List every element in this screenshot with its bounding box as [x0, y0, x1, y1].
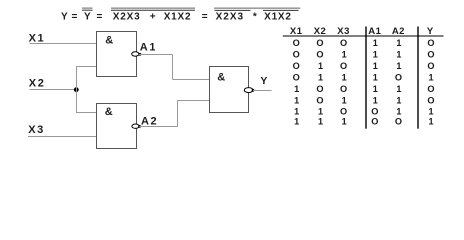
nand gate U1 box [97, 32, 137, 77]
svg-text:1: 1 [373, 38, 378, 48]
svg-text:X2X3: X2X3 [113, 12, 141, 23]
svg-text:1: 1 [428, 73, 433, 83]
svg-text:O: O [293, 38, 300, 48]
table row 5 [294, 84, 434, 94]
truth table separator bar 1 [365, 27, 367, 129]
svg-text:+: + [150, 12, 156, 23]
svg-text:X1: X1 [29, 33, 46, 45]
svg-text:O: O [427, 50, 434, 60]
pin dot A1 [139, 53, 142, 56]
svg-text:1: 1 [373, 84, 378, 94]
wire Y output [253, 90, 272, 92]
svg-text:1: 1 [373, 73, 378, 83]
svg-text:1: 1 [373, 95, 378, 105]
wire junction riser [76, 67, 78, 113]
svg-text:X2: X2 [314, 26, 327, 37]
svg-text:1: 1 [342, 50, 347, 60]
gate U1 output bubble [132, 52, 139, 56]
svg-text:&: & [217, 72, 225, 84]
truth table header underline [283, 35, 444, 37]
svg-text:X3: X3 [28, 124, 45, 136]
svg-text:1: 1 [342, 117, 347, 127]
svg-text:1: 1 [318, 73, 323, 83]
svg-text:Y: Y [260, 75, 267, 87]
wire X3 to gate U2 input 2 [28, 136, 97, 138]
svg-text:O: O [340, 84, 347, 94]
gate U3 output bubble [244, 88, 253, 93]
svg-text:O: O [395, 73, 402, 83]
svg-text:X2: X2 [29, 77, 46, 89]
wire X1 to gate U1 input 1 [30, 43, 97, 45]
svg-text:X1: X1 [290, 26, 303, 37]
svg-text:=: = [202, 12, 208, 23]
svg-text:1: 1 [373, 61, 378, 71]
svg-text:X1X2: X1X2 [264, 12, 292, 23]
wire A1 down [172, 55, 174, 80]
svg-text:O: O [340, 106, 347, 116]
svg-text:1: 1 [342, 95, 347, 105]
svg-text:X1X2: X1X2 [164, 12, 192, 23]
svg-text:O: O [293, 61, 300, 71]
svg-text:O: O [340, 38, 347, 48]
svg-text:O: O [395, 117, 402, 127]
svg-text:O: O [371, 117, 378, 127]
table row 1 [293, 38, 435, 48]
svg-text:=: = [97, 12, 103, 23]
svg-text:1: 1 [294, 117, 299, 127]
table row 4 [293, 73, 434, 83]
svg-text:O: O [293, 50, 300, 60]
svg-text:1: 1 [396, 61, 401, 71]
wire junction to gate U1 input 2 [76, 66, 97, 68]
svg-text:O: O [316, 95, 323, 105]
svg-text:O: O [293, 73, 300, 83]
svg-text:O: O [340, 61, 347, 71]
wire X2 to junction [30, 89, 77, 91]
svg-text:1: 1 [294, 95, 299, 105]
svg-text:1: 1 [342, 73, 347, 83]
formula Y double overline [82, 8, 93, 22]
pin dot Y [252, 89, 255, 92]
svg-text:Y: Y [61, 12, 68, 23]
svg-text:A1: A1 [140, 42, 157, 54]
truth table separator bar 2 [417, 27, 419, 129]
svg-text:1: 1 [318, 117, 323, 127]
svg-text:O: O [427, 95, 434, 105]
nand gate U2 box [97, 104, 137, 149]
svg-text:O: O [427, 38, 434, 48]
svg-text:O: O [316, 50, 323, 60]
gate U2 output bubble [132, 124, 139, 128]
formula X2X3 + X1X2 double overline [111, 8, 195, 22]
svg-text:Y: Y [84, 12, 91, 23]
table row 7 [294, 106, 433, 116]
svg-text:1: 1 [428, 117, 433, 127]
svg-text:O: O [427, 84, 434, 94]
svg-text:&: & [105, 106, 113, 118]
wire A2 to gate U3 input 2 [178, 100, 210, 102]
svg-text:1: 1 [428, 106, 433, 116]
svg-text:1: 1 [396, 84, 401, 94]
formula NOT(X2X3) * NOT(X1X2) with outer overline [214, 8, 300, 22]
truth table data rows [293, 38, 435, 127]
svg-text:O: O [316, 38, 323, 48]
table row 8 [294, 117, 433, 127]
pin dot A2 [138, 125, 141, 128]
svg-text:1: 1 [294, 106, 299, 116]
wire A1 horizontal [139, 54, 173, 56]
svg-text:&: & [105, 35, 113, 47]
svg-text:A1: A1 [368, 26, 381, 37]
wire A1 to gate U3 input 1 [173, 79, 210, 81]
svg-text:1: 1 [318, 106, 323, 116]
svg-text:O: O [371, 106, 378, 116]
svg-text:1: 1 [396, 38, 401, 48]
nand gate U3 box [210, 67, 249, 113]
table row 3 [293, 61, 435, 71]
svg-text:1: 1 [318, 61, 323, 71]
table row 6 [294, 95, 434, 105]
svg-text:Y: Y [427, 26, 434, 37]
svg-text:1: 1 [373, 50, 378, 60]
svg-text:X2X3: X2X3 [216, 12, 244, 23]
junction dot on X2 [74, 87, 79, 92]
svg-text:*: * [253, 12, 257, 23]
svg-text:=: = [72, 12, 78, 23]
wire A2 horizontal [139, 126, 177, 128]
svg-text:A2: A2 [392, 26, 405, 37]
svg-text:1: 1 [396, 95, 401, 105]
table row 2 [293, 50, 435, 60]
wire junction to gate U2 input 1 [76, 112, 97, 114]
svg-text:1: 1 [396, 50, 401, 60]
svg-text:O: O [316, 84, 323, 94]
svg-text:A2: A2 [141, 115, 158, 127]
svg-text:1: 1 [396, 106, 401, 116]
svg-text:X3: X3 [337, 26, 350, 37]
svg-text:1: 1 [294, 84, 299, 94]
svg-text:O: O [427, 61, 434, 71]
wire A2 up [177, 101, 179, 127]
